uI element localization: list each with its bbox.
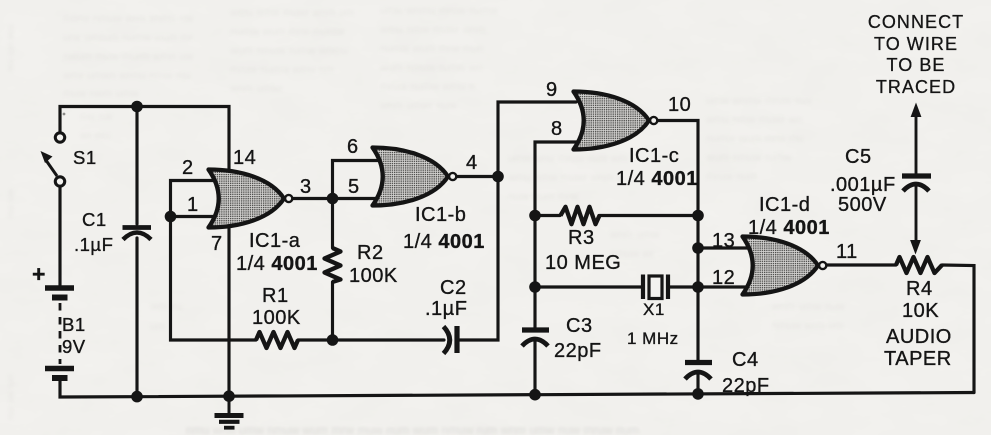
svg-text:wm nu: wm nu: [149, 301, 182, 313]
wire R2 top lead: [331, 199, 334, 249]
svg-text:wn mu: wn mu: [5, 188, 16, 218]
resistor R1: [256, 332, 298, 348]
wire pin7 to ground: [227, 225, 230, 396]
svg-text:10: 10: [668, 94, 691, 116]
svg-text:IC1-c: IC1-c: [629, 145, 679, 167]
svg-text:wum nmuw rumw wnmu: wum nmuw rumw wnmu: [229, 45, 348, 57]
wire C2 to pin4 node: [459, 102, 576, 340]
wire top rail: [60, 107, 229, 173]
svg-text:.1µF: .1µF: [74, 234, 113, 255]
svg-text:8: 8: [551, 118, 563, 140]
svg-text:wmu nmw muwr wnm: wmu nmw muwr wnm: [379, 24, 486, 36]
svg-text:3: 3: [300, 176, 312, 198]
junction X1 right: [692, 281, 704, 293]
wire X1 right / pin12: [670, 285, 758, 288]
svg-text:wnm umw nuw: wnm umw nuw: [771, 301, 845, 313]
svg-text:mruw num: mruw num: [706, 171, 757, 183]
crystal X1: [643, 275, 668, 300]
svg-text:umw wnmu mruw nuv: umw wnmu mruw nuv: [706, 95, 813, 107]
svg-text:numw wum mrw mun: numw wum mrw mun: [380, 43, 484, 55]
svg-text:wum nmuw rumw wn: wum nmuw rumw wn: [379, 62, 483, 74]
battery B1: [45, 288, 74, 378]
capacitor C1: [123, 228, 152, 240]
svg-text:.001µF: .001µF: [830, 174, 896, 196]
svg-text:numw wum mrw muniw: numw wum mrw muniw: [230, 26, 344, 38]
capacitor C5: [902, 176, 931, 191]
svg-text:CONNECT: CONNECT: [868, 12, 964, 32]
wire C1 column lower: [135, 238, 138, 397]
wire pin13: [698, 246, 758, 249]
svg-text:1/4 4001: 1/4 4001: [616, 168, 698, 190]
wire pin6 bracket: [333, 161, 391, 199]
gate IC1-a: [209, 170, 293, 228]
svg-text:mruw numw wmu n: mruw numw wmu n: [380, 81, 475, 93]
wire R1 to C2: [298, 338, 444, 341]
svg-text:um: um: [150, 321, 165, 333]
svg-text:6: 6: [347, 136, 359, 158]
svg-text:IC1-a: IC1-a: [249, 230, 301, 252]
wire X1 left: [535, 285, 641, 288]
svg-text:14: 14: [233, 147, 256, 169]
svg-text:11: 11: [836, 241, 858, 263]
svg-text:10 MEG: 10 MEG: [545, 252, 621, 274]
svg-text:22pF: 22pF: [554, 340, 602, 362]
wire R3: [535, 214, 560, 217]
svg-text:1: 1: [187, 194, 199, 216]
capacitor C2: [444, 326, 458, 354]
svg-text:mruw numw wmu nm: mruw numw wmu nm: [230, 64, 334, 76]
probe arrow to wire to be traced: [910, 103, 921, 255]
svg-text:.1µF: .1µF: [425, 298, 467, 320]
svg-text:500V: 500V: [838, 194, 887, 216]
svg-text:wnm umw: wnm umw: [609, 229, 660, 241]
svg-text:X1: X1: [643, 300, 665, 319]
svg-text:R1: R1: [262, 285, 289, 307]
junction pin1 node: [165, 211, 177, 223]
svg-text:wnm umwr nuw: wnm umwr nuw: [379, 100, 456, 112]
svg-text:um wn mu: um wn mu: [5, 374, 16, 420]
svg-text:12: 12: [712, 267, 735, 289]
svg-text:C2: C2: [440, 277, 467, 299]
svg-text:wr mu: wr mu: [79, 130, 110, 142]
svg-text:4: 4: [466, 152, 478, 174]
svg-text:13: 13: [712, 230, 735, 252]
svg-text:umw wnu mruw nuw wm: umw wnu mruw nuw wm: [508, 153, 628, 165]
wire gate-c output down: [658, 121, 698, 361]
svg-text:B1: B1: [62, 314, 86, 335]
junction pin3/pin5/R2: [327, 193, 339, 205]
junction pin7 ground: [223, 390, 235, 402]
junction C4 ground: [692, 388, 704, 400]
gate IC1-d: [743, 237, 827, 295]
svg-text:C3: C3: [566, 315, 593, 337]
wire gate-a output to gate-b pin5: [293, 197, 390, 200]
svg-text:muw nwm umw: muw nwm umw: [63, 88, 139, 100]
svg-text:umw wnmu mruw numw: umw wnmu mruw numw: [380, 5, 498, 17]
junction pin4 node: [492, 171, 504, 183]
ground: [215, 396, 244, 428]
resistor R4: [896, 257, 942, 273]
wire R4 to ground rail: [942, 265, 974, 393]
svg-text:wmu nmw muwr wnm u: wmu nmw muwr wnm u: [507, 172, 623, 184]
wire battery to ground rail: [60, 381, 974, 397]
wire pin1 input: [171, 215, 225, 218]
svg-text:wum nmuw rumw: wum nmuw rumw: [705, 152, 792, 164]
capacitor C4: [685, 363, 712, 380]
junction R3 left: [529, 210, 541, 222]
svg-text:AUDIO: AUDIO: [886, 326, 952, 348]
svg-text:1/4 4001: 1/4 4001: [748, 217, 830, 239]
svg-text:C4: C4: [732, 349, 759, 371]
junction R2 bottom: [327, 334, 339, 346]
svg-text:nwum muw murm wmn uw: nwum muw murm wmn uw: [63, 51, 193, 63]
svg-text:R2: R2: [357, 242, 384, 264]
switch S1: [41, 113, 66, 187]
svg-text:nmu wrm umw nmuw wum mrw muw n: nmu wrm umw nmuw wum mrw muw num wum nmu…: [186, 423, 639, 435]
wire pin8: [535, 142, 578, 328]
junction R3 right: [692, 210, 704, 222]
svg-text:9V: 9V: [62, 336, 86, 357]
wire C4 to ground rail: [696, 372, 699, 394]
junction pin13: [692, 242, 704, 254]
svg-text:22pF: 22pF: [722, 375, 770, 397]
svg-text:S1: S1: [73, 147, 97, 168]
gate IC1-c: [574, 92, 658, 150]
wire pin1 node down to feedback: [171, 217, 257, 341]
svg-text:+: +: [32, 261, 46, 287]
svg-text:1 MHz: 1 MHz: [627, 329, 679, 348]
junction C3 ground: [529, 389, 541, 401]
svg-text:wmu nmw muwr wnm um: wmu nmw muwr wnm um: [229, 7, 354, 19]
junction top rail / C1: [131, 101, 143, 113]
svg-text:100K: 100K: [349, 265, 398, 287]
svg-text:miimr nmuw wrm immu nw: miimr nmuw wrm immu nw: [63, 13, 193, 25]
svg-text:9: 9: [546, 79, 558, 101]
junction C1 ground: [131, 391, 143, 403]
svg-text:TO BE: TO BE: [887, 55, 946, 75]
capacitor C3: [522, 330, 549, 346]
svg-text:nuw wum mrw: nuw wum mrw: [508, 191, 578, 203]
svg-text:wnm umwr: wnm umwr: [229, 83, 284, 95]
svg-text:2: 2: [182, 157, 194, 179]
junction X1 left: [529, 281, 541, 293]
wire C3 to ground rail: [533, 339, 536, 395]
svg-text:mw um nw: mw um nw: [5, 24, 16, 73]
wire R2 bottom lead: [331, 282, 334, 340]
svg-text:IC1-d: IC1-d: [759, 194, 810, 216]
svg-text:10K: 10K: [902, 300, 939, 322]
svg-text:1/4 4001: 1/4 4001: [236, 253, 318, 275]
resistor R2: [325, 248, 341, 282]
svg-text:5: 5: [348, 176, 360, 198]
svg-text:nmuw wrm um: nmuw wrm um: [772, 320, 844, 332]
svg-text:urw wmium numw wum mr: urw wmium numw wum mr: [63, 32, 194, 44]
wire S1 to battery: [58, 187, 61, 285]
svg-text:C1: C1: [82, 209, 107, 230]
wire gate-d output to R4: [827, 263, 896, 266]
svg-text:TO WIRE: TO WIRE: [874, 34, 958, 54]
svg-text:R3: R3: [568, 227, 595, 249]
wire pin2 input: [171, 181, 225, 217]
wire C1 column upper: [135, 107, 138, 225]
svg-text:R4: R4: [906, 278, 933, 300]
svg-text:1/4 4001: 1/4 4001: [403, 231, 485, 253]
svg-text:C5: C5: [845, 146, 872, 168]
svg-text:mu nw: mu nw: [80, 111, 112, 123]
node CONNECT TO WIRE TO BE TRACED: [868, 12, 964, 97]
svg-text:wmu nmw muwr wn: wmu nmw muwr wn: [705, 114, 803, 126]
svg-text:100K: 100K: [252, 307, 301, 329]
svg-text:wmr umwn wrmu nmw mu: wmr umwn wrmu nmw mu: [62, 70, 191, 82]
wire gate-b output: [457, 175, 498, 178]
svg-text:TRACED: TRACED: [876, 77, 956, 97]
gate IC1-b: [373, 148, 457, 206]
svg-text:IC1-b: IC1-b: [415, 204, 466, 226]
svg-text:numw wum mrw mu: numw wum mrw mu: [706, 133, 804, 145]
svg-text:TAPER: TAPER: [884, 348, 952, 370]
svg-text:7: 7: [211, 233, 223, 255]
resistor R3: [561, 207, 600, 224]
